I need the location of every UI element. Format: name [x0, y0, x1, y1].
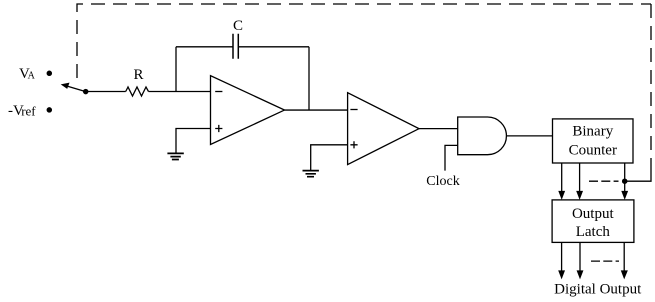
switch SW1 arrowhead [61, 83, 70, 89]
wire latch output arrow 1 [561, 242, 563, 272]
svg-text:Digital Output: Digital Output [554, 281, 642, 297]
wire U1 output to comparator U2 [285, 109, 348, 111]
wire counter output arrow 2 [579, 163, 581, 193]
op-amp U1 plus label [215, 125, 222, 132]
and-gate G1 [458, 117, 507, 155]
svg-text:Output: Output [572, 206, 615, 222]
svg-text:Counter: Counter [569, 142, 617, 158]
wire G1 output to binary counter [507, 135, 553, 137]
svg-text:C: C [233, 18, 243, 34]
wire counter output arrow 1 [561, 163, 563, 193]
wire U1 feedback right vertical to output [308, 47, 310, 110]
wire latch output arrow 3 [623, 242, 625, 272]
wire dashed continuation marks below latch [591, 260, 619, 262]
node feedback junction dot [623, 179, 627, 183]
wire U1 feedback top right [238, 46, 309, 48]
op-amp U2 minus label [350, 109, 357, 111]
wire solid feedback corner to junction [625, 158, 651, 181]
resistor R [126, 87, 149, 96]
wire dashed feedback loop (counter to switch control) [77, 4, 651, 78]
node VA terminal [47, 71, 51, 75]
op-amp U2 plus label [350, 141, 357, 148]
svg-text:Clock: Clock [426, 174, 459, 189]
wire resistor to op-amp U1 inverting input [149, 91, 211, 93]
svg-text:Binary: Binary [572, 124, 613, 140]
ground U1 [167, 153, 183, 159]
wire counter output arrow 3 (with feedback tap) [624, 163, 626, 193]
switch SW1 pole [66, 86, 86, 92]
wire U2 non-inverting input to ground [311, 145, 348, 171]
node switch pivot dot [84, 90, 88, 94]
op-amp U2 (comparator) [348, 93, 419, 165]
block output latch box [552, 200, 634, 243]
op-amp U1 (integrator) [211, 76, 285, 145]
svg-text:R: R [133, 67, 143, 83]
wire U1 feedback top left [176, 46, 233, 48]
block binary counter box [553, 119, 634, 163]
svg-text:Latch: Latch [576, 224, 611, 240]
wire U2 output to AND gate [419, 128, 458, 130]
wire switch to resistor [86, 91, 126, 93]
wire clock input [445, 145, 458, 170]
wire latch output arrow 2 [579, 242, 581, 272]
node -Vref terminal [47, 108, 51, 112]
capacitor C plates [233, 34, 238, 59]
ground U2 [303, 171, 319, 177]
op-amp U1 minus label [215, 91, 222, 93]
wire U1 non-inverting input [176, 129, 211, 154]
svg-text:VA: VA [19, 66, 36, 82]
svg-text:-Vref: -Vref [8, 103, 36, 119]
wire U1 feedback left vertical [175, 47, 177, 92]
wire dashed continuation marks between counter and latch [589, 180, 619, 182]
